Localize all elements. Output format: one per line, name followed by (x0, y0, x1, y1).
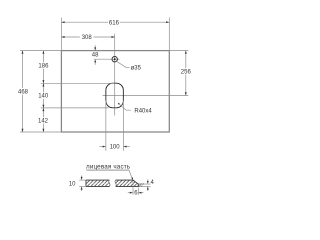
faucet hole centerline vertical (114, 34, 116, 116)
underline лицевая часть (86, 169, 129, 171)
leader dot R40x4 (118, 103, 120, 105)
extension line cutout left (105, 101, 107, 151)
svg-text:256: 256 (181, 69, 192, 75)
dimension 468 line (22, 51, 24, 88)
extension line right top (169, 50, 188, 52)
extension line left bottom (20, 131, 61, 133)
svg-text:140: 140 (38, 94, 49, 100)
extension line top right (168, 18, 170, 51)
label 6 (134, 190, 137, 195)
dimension 6 chamfer (132, 182, 134, 195)
faucet hole center dot (114, 58, 116, 60)
extension line oval top (41, 82, 115, 84)
extension line left top (20, 50, 61, 52)
extension line cutout right (122, 101, 124, 151)
svg-text:100: 100 (110, 145, 121, 151)
svg-text:лицевая часть: лицевая часть (86, 164, 131, 171)
extension line oval bottom (41, 107, 109, 109)
section bar left segment (86, 180, 110, 186)
dimension 48 (94, 45, 96, 47)
dimension 10 thickness (79, 179, 85, 181)
dimension 256 line (185, 51, 187, 69)
countertop plan outline (61, 51, 169, 132)
leader R40x4 (119, 104, 131, 111)
oval cutout centerline horizontal (103, 95, 189, 97)
dimension 616 line (61, 21, 108, 23)
leader ø35 (117, 61, 130, 67)
section bar right segment with chamfer (115, 180, 138, 186)
svg-text:R40x4: R40x4 (134, 108, 152, 114)
svg-text:186: 186 (38, 64, 49, 70)
oval drain cutout R40x4 (106, 83, 124, 108)
dimension 308 line (61, 36, 79, 38)
faucet hole ø35 (112, 57, 117, 62)
svg-text:468: 468 (18, 89, 29, 95)
leader to top face (129, 170, 132, 179)
svg-text:308: 308 (82, 35, 93, 41)
label 48 (92, 52, 98, 57)
svg-text:48: 48 (92, 53, 99, 59)
dimension 100 line (99, 146, 102, 148)
faucet hole centerline horizontal (94, 58, 120, 60)
extension line top left (60, 18, 62, 51)
dimension chain 186/140/142 line (42, 51, 44, 63)
dimension 4 edge (139, 183, 151, 185)
svg-text:10°: 10° (138, 183, 145, 188)
svg-text:142: 142 (38, 119, 49, 125)
svg-text:616: 616 (109, 20, 120, 26)
svg-text:10: 10 (69, 181, 76, 187)
svg-text:ø35: ø35 (131, 66, 142, 72)
